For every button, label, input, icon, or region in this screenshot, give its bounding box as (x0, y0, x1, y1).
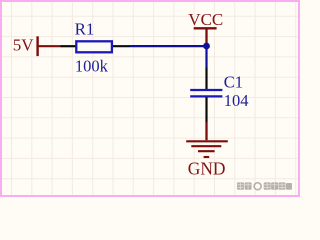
capacitor C1 plates (190, 90, 222, 96)
resistor R1 body (76, 41, 112, 52)
svg-text:GND: GND (188, 158, 226, 178)
wire junction to capacitor (205, 46, 207, 68)
watermark 头条 @电卤药丸 (237, 182, 292, 189)
svg-text:VCC: VCC (188, 10, 223, 29)
svg-text:104: 104 (224, 91, 249, 110)
port 5V terminal bar (36, 36, 38, 56)
pin capacitor bottom (205, 97, 207, 122)
power port VCC bar (194, 27, 217, 29)
svg-text:100k: 100k (75, 57, 109, 76)
pin resistor right (113, 45, 130, 47)
wire resistor to junction (130, 45, 207, 47)
ground stem (205, 122, 207, 140)
pin capacitor top (205, 68, 207, 90)
svg-text:R1: R1 (75, 20, 95, 39)
ground bars (186, 141, 228, 157)
pin resistor left (61, 45, 76, 47)
power port VCC stem (205, 28, 207, 45)
wire 5V to pin (maroon) (37, 45, 61, 47)
svg-text:C1: C1 (224, 73, 243, 92)
sheet background (0, 0, 300, 197)
junction node VCC (203, 43, 210, 50)
svg-text:5V: 5V (13, 36, 35, 55)
